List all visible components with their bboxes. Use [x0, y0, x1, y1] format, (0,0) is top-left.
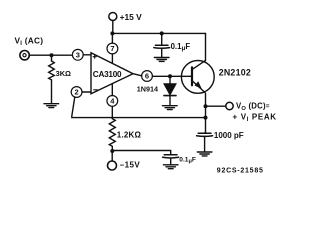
pin 7	[107, 43, 118, 54]
wire feedback line	[72, 97, 206, 118]
wire pin7 up to +15V rail	[111, 33, 113, 43]
svg-text:VO (DC)=: VO (DC)=	[236, 102, 270, 112]
resistor R2 1.2K	[109, 119, 115, 147]
svg-text:0.1μF: 0.1μF	[171, 42, 191, 52]
resistor R1 3K	[49, 61, 55, 80]
wire pin7 to op-amp top edge	[111, 54, 113, 63]
output terminal	[226, 102, 233, 109]
svg-text:1000 pF: 1000 pF	[214, 131, 244, 140]
svg-text:VI (AC): VI (AC)	[15, 35, 44, 47]
svg-text:3: 3	[76, 50, 80, 59]
input terminal VI(AC)	[20, 51, 29, 60]
ground under D1	[163, 106, 178, 110]
wire pin6 to transistor base	[152, 75, 192, 77]
op-amp U1 triangle	[91, 53, 133, 94]
svg-text:+15 V: +15 V	[120, 12, 143, 22]
node feedback junction	[204, 116, 208, 120]
wire C3 to ground	[204, 136, 206, 151]
svg-text:0.1μF: 0.1μF	[179, 157, 196, 165]
wire R2 to -15V node	[111, 146, 113, 150]
pin 4	[107, 96, 118, 107]
ground under C1	[154, 58, 169, 62]
wire to output terminal	[206, 105, 226, 107]
pin 6	[142, 71, 153, 82]
wire C1 to ground	[161, 48, 163, 57]
+15V terminal	[109, 13, 117, 21]
pin 2	[71, 87, 82, 98]
node -15V junction	[110, 149, 114, 153]
wire pin2 to op-amp	[82, 91, 91, 93]
wire pin4 down to R2	[111, 106, 113, 118]
svg-text:7: 7	[110, 44, 114, 53]
svg-text:92CS-21585: 92CS-21585	[217, 167, 264, 174]
wire junction down to R1	[51, 55, 53, 61]
node rail cap junction	[160, 31, 164, 35]
pin 3	[72, 49, 83, 60]
svg-text:–15V: –15V	[120, 161, 141, 170]
op-amp plus sign	[93, 55, 96, 58]
wire junction down to D1	[169, 76, 171, 84]
svg-text:2: 2	[75, 88, 79, 97]
wire emitter down	[205, 93, 207, 133]
wire rail corner down to collector	[205, 33, 207, 60]
node rail left junction	[110, 31, 114, 35]
svg-text:6: 6	[145, 72, 149, 81]
svg-text:CA3100: CA3100	[93, 70, 122, 79]
-15V terminal	[108, 161, 117, 170]
svg-text:2N2102: 2N2102	[219, 68, 251, 78]
svg-text:4: 4	[110, 97, 115, 106]
op-amp minus sign	[94, 89, 98, 91]
transistor emitter arrow	[195, 81, 202, 88]
ground under R1	[44, 104, 59, 108]
wire op-amp apex to pin6	[133, 74, 142, 76]
ground under C2	[163, 165, 178, 169]
svg-text:1.2KΩ: 1.2KΩ	[117, 131, 142, 140]
svg-text:1N914: 1N914	[137, 84, 158, 93]
wire rail down to C1	[161, 33, 163, 45]
wire C2 to ground	[170, 158, 172, 165]
transistor emitter lead	[192, 81, 205, 93]
wire op-amp bottom edge to pin4	[111, 84, 113, 96]
node output junction	[204, 104, 208, 108]
transistor collector lead	[192, 61, 205, 70]
svg-text:+ VI PEAK: + VI PEAK	[233, 112, 277, 122]
wire input to pin3	[29, 54, 72, 56]
node input junction	[50, 53, 54, 57]
transistor Q1 circle	[181, 61, 214, 94]
wire pin3 to op-amp	[83, 54, 91, 56]
capacitor C3 1000pF	[197, 133, 213, 136]
svg-text:3KΩ: 3KΩ	[56, 69, 71, 78]
wire -15V node to C2	[112, 151, 170, 155]
ground under C3	[197, 152, 212, 156]
wire output node down to C3	[204, 132, 207, 134]
transistor base bar	[191, 67, 193, 85]
wire +15V rail	[112, 32, 205, 34]
wire D1 to ground	[169, 95, 171, 105]
capacitor C1 0.1uF	[154, 45, 170, 48]
diode D1 1N914	[164, 84, 176, 95]
wire R1 to ground	[51, 80, 53, 103]
node diode junction	[168, 74, 172, 78]
capacitor C2 0.1uF bottom	[163, 155, 179, 158]
